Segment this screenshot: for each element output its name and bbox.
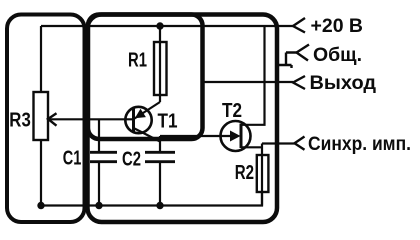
svg-text:T1: T1 — [158, 111, 178, 133]
svg-text:R3: R3 — [9, 109, 31, 131]
svg-text:Синхр. имп.: Синхр. имп. — [308, 134, 411, 155]
svg-text:C2: C2 — [122, 149, 141, 171]
svg-text:Выход: Выход — [310, 73, 377, 94]
svg-text:Общ.: Общ. — [313, 45, 362, 66]
svg-text:+20 В: +20 В — [311, 16, 364, 37]
svg-text:C1: C1 — [63, 148, 82, 170]
svg-text:T2: T2 — [222, 100, 242, 122]
svg-text:R2: R2 — [235, 162, 254, 184]
svg-text:R1: R1 — [128, 50, 147, 72]
